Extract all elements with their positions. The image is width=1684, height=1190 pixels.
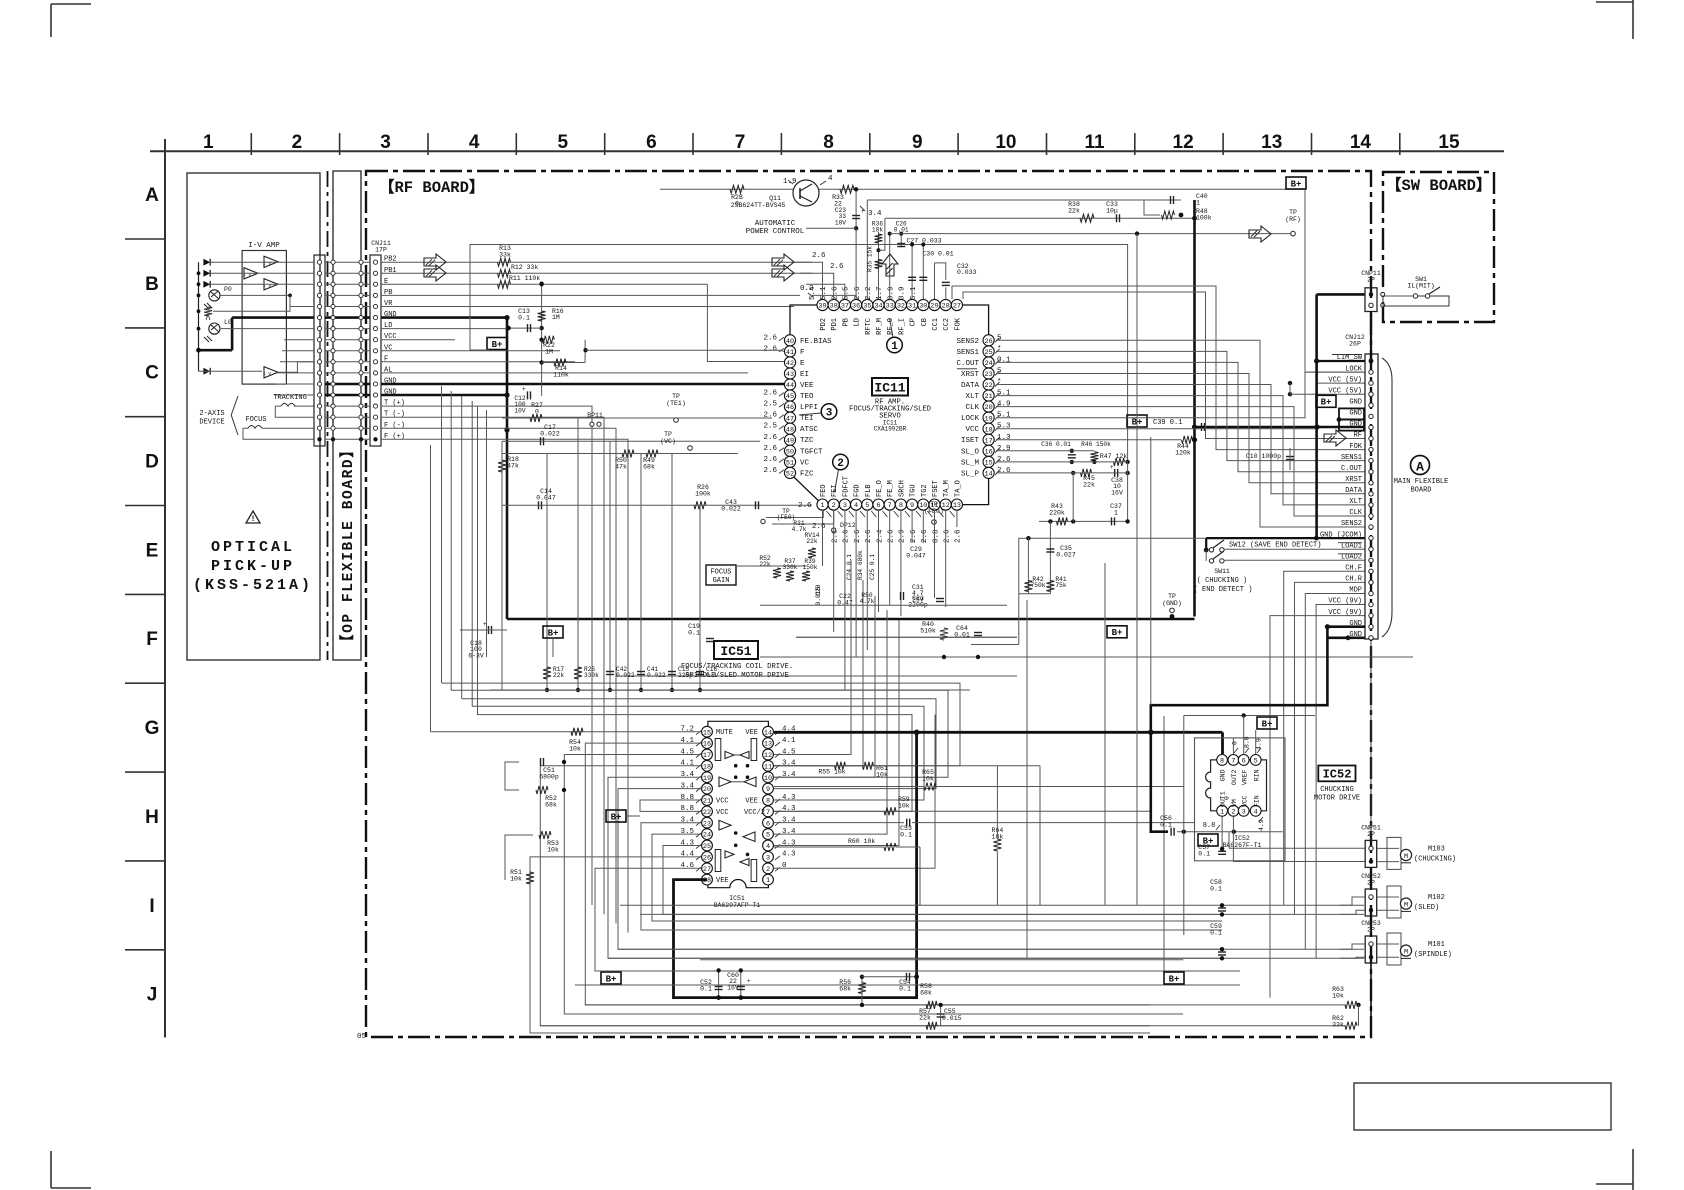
svg-text:7: 7 xyxy=(735,132,746,153)
svg-text:0.2: 0.2 xyxy=(800,285,814,293)
svg-text:SL_O: SL_O xyxy=(961,448,980,456)
svg-text:G: G xyxy=(145,718,160,739)
svg-text:15: 15 xyxy=(1438,132,1460,153)
svg-text:TA_M: TA_M xyxy=(943,480,951,497)
svg-text:43: 43 xyxy=(786,371,794,379)
svg-text:SL_M: SL_M xyxy=(961,459,980,467)
svg-text:3: 3 xyxy=(380,132,391,153)
svg-text:C30 0.01: C30 0.01 xyxy=(922,251,953,258)
svg-text:27: 27 xyxy=(953,303,961,311)
svg-text:IC51: IC51 xyxy=(729,895,745,902)
svg-text:220k: 220k xyxy=(1049,510,1065,517)
svg-text:4.7k: 4.7k xyxy=(792,526,807,533)
svg-text:(RF): (RF) xyxy=(1285,216,1301,223)
svg-text:GND: GND xyxy=(1220,769,1227,781)
svg-text:XRST: XRST xyxy=(961,371,980,379)
svg-text:IC52: IC52 xyxy=(1323,768,1352,782)
svg-text:36: 36 xyxy=(852,303,860,311)
svg-text:OPTICAL: OPTICAL xyxy=(211,539,295,556)
svg-text:M: M xyxy=(1404,948,1408,956)
svg-text:2: 2 xyxy=(766,866,770,874)
svg-text:【RF BOARD】: 【RF BOARD】 xyxy=(379,178,484,197)
svg-text:3: 3 xyxy=(826,408,833,420)
svg-text:1: 1 xyxy=(1196,200,1200,207)
svg-text:4.1: 4.1 xyxy=(782,737,796,745)
svg-text:32: 32 xyxy=(897,303,905,311)
svg-text:IC52: IC52 xyxy=(1234,835,1250,842)
svg-text:TP: TP xyxy=(1168,593,1176,600)
svg-text:12: 12 xyxy=(1173,132,1194,153)
svg-text:2: 2 xyxy=(292,132,303,153)
svg-text:0.022: 0.022 xyxy=(540,431,560,438)
svg-text:CH.R: CH.R xyxy=(1345,576,1363,584)
svg-text:R11 110k: R11 110k xyxy=(509,275,540,282)
svg-text:23: 23 xyxy=(703,820,711,828)
svg-text:8.8: 8.8 xyxy=(1203,822,1216,830)
svg-text:OUT2: OUT2 xyxy=(1231,769,1238,785)
svg-text:C24 0.1: C24 0.1 xyxy=(846,554,853,580)
svg-text:GND: GND xyxy=(1349,399,1362,407)
svg-text:【OP FLEXIBLE BOARD】: 【OP FLEXIBLE BOARD】 xyxy=(339,442,357,649)
svg-text:DP12: DP12 xyxy=(840,522,856,529)
svg-text:SENS1: SENS1 xyxy=(1341,454,1362,462)
svg-text:FLB: FLB xyxy=(865,484,873,497)
svg-text:CLK: CLK xyxy=(965,404,979,412)
svg-text:38: 38 xyxy=(830,303,838,311)
svg-text:(TE1): (TE1) xyxy=(666,400,686,407)
svg-text:20: 20 xyxy=(703,786,711,794)
svg-text:8: 8 xyxy=(766,798,770,806)
svg-text:0: 0 xyxy=(1224,796,1231,800)
svg-text:P0: P0 xyxy=(224,286,232,293)
svg-text:C10 1000p: C10 1000p xyxy=(1246,453,1281,460)
svg-text:IL(MIT): IL(MIT) xyxy=(1407,283,1434,290)
svg-text:VCC/2: VCC/2 xyxy=(744,809,765,817)
svg-text:26: 26 xyxy=(703,855,711,863)
svg-text:2.9: 2.9 xyxy=(899,529,907,543)
svg-text:(KSS-521A): (KSS-521A) xyxy=(193,577,313,594)
svg-text:RF_I: RF_I xyxy=(898,318,906,335)
svg-text:10k: 10k xyxy=(569,746,581,753)
svg-text:0.1: 0.1 xyxy=(899,986,911,993)
svg-text:2.6: 2.6 xyxy=(763,334,777,342)
svg-text:0.047: 0.047 xyxy=(536,495,556,502)
svg-text:15: 15 xyxy=(703,729,711,737)
svg-text:7.2: 7.2 xyxy=(680,726,694,734)
svg-text:3.4: 3.4 xyxy=(782,760,796,768)
svg-text:F: F xyxy=(800,349,805,357)
svg-text:7: 7 xyxy=(766,809,770,817)
svg-text:0.1: 0.1 xyxy=(1210,886,1222,893)
svg-text:TP: TP xyxy=(930,501,938,508)
svg-text:2.5: 2.5 xyxy=(763,401,777,409)
svg-text:6: 6 xyxy=(1242,758,1246,766)
svg-text:10k: 10k xyxy=(510,876,522,883)
svg-text:VM: VM xyxy=(1231,799,1238,807)
svg-text:16: 16 xyxy=(703,741,711,749)
svg-text:B+: B+ xyxy=(1112,628,1123,638)
svg-text:0.1: 0.1 xyxy=(1198,851,1210,858)
svg-text:0.022: 0.022 xyxy=(721,506,741,513)
svg-text:10k: 10k xyxy=(876,772,888,779)
svg-text:B+: B+ xyxy=(548,628,559,638)
svg-text:4.5: 4.5 xyxy=(782,748,796,756)
svg-text:TEI: TEI xyxy=(800,415,814,423)
svg-text:0.015: 0.015 xyxy=(815,587,822,606)
svg-text:POWER CONTROL: POWER CONTROL xyxy=(746,228,805,236)
svg-text:26P: 26P xyxy=(1349,341,1361,348)
svg-text:( END DETECT ): ( END DETECT ) xyxy=(1194,586,1253,594)
svg-text:1: 1 xyxy=(766,877,770,885)
svg-text:39: 39 xyxy=(818,303,826,311)
svg-text:C39 0.1: C39 0.1 xyxy=(1153,419,1182,427)
svg-text:VCC (9V): VCC (9V) xyxy=(1328,609,1362,617)
svg-text:FDFCT: FDFCT xyxy=(842,476,850,497)
svg-text:22k: 22k xyxy=(1083,482,1095,489)
svg-text:(SPINDLE): (SPINDLE) xyxy=(1414,951,1452,959)
svg-text:GND (JCOM): GND (JCOM) xyxy=(1320,531,1362,539)
svg-text:4.9: 4.9 xyxy=(1256,738,1263,750)
svg-text:16V: 16V xyxy=(727,984,739,991)
svg-text:24: 24 xyxy=(985,360,993,368)
svg-text:5: 5 xyxy=(766,832,770,840)
svg-text:330k: 330k xyxy=(584,672,599,679)
svg-text:LPFI: LPFI xyxy=(800,404,818,412)
svg-text:FSET: FSET xyxy=(932,480,940,497)
svg-text:VEE: VEE xyxy=(745,729,758,737)
svg-text:2.5: 2.5 xyxy=(763,423,777,431)
svg-text:8: 8 xyxy=(823,132,834,153)
svg-text:3: 3 xyxy=(1242,808,1246,816)
svg-text:8: 8 xyxy=(899,502,903,510)
svg-text:46: 46 xyxy=(786,404,794,412)
svg-text:M102: M102 xyxy=(1428,894,1445,902)
svg-text:VCC: VCC xyxy=(965,426,979,434)
svg-text:110k: 110k xyxy=(553,372,569,379)
svg-text:B+: B+ xyxy=(1262,719,1273,729)
svg-text:SENS2: SENS2 xyxy=(956,338,979,346)
svg-text:SENS1: SENS1 xyxy=(956,349,979,357)
svg-text:R12 33k: R12 33k xyxy=(511,264,538,271)
svg-text:16V: 16V xyxy=(1111,489,1123,496)
svg-text:1.9: 1.9 xyxy=(783,178,797,186)
svg-text:31: 31 xyxy=(908,303,916,311)
svg-text:13: 13 xyxy=(953,502,961,510)
svg-text:(SLED): (SLED) xyxy=(1414,904,1439,912)
svg-text:2.6: 2.6 xyxy=(865,529,873,543)
svg-text:R55 10k: R55 10k xyxy=(818,769,845,776)
svg-text:15: 15 xyxy=(985,460,993,468)
svg-text:2.6: 2.6 xyxy=(812,252,826,260)
svg-text:CLK: CLK xyxy=(1349,509,1362,517)
svg-text:BOARD: BOARD xyxy=(1410,487,1431,495)
svg-text:J: J xyxy=(147,985,158,1006)
svg-text:XLT: XLT xyxy=(1349,498,1362,506)
svg-text:(GND): (GND) xyxy=(1162,600,1182,607)
svg-text:E: E xyxy=(800,360,805,368)
svg-text:2.4: 2.4 xyxy=(876,529,884,543)
svg-text:0.1: 0.1 xyxy=(900,832,912,839)
svg-text:4: 4 xyxy=(469,132,480,153)
svg-text:LD: LD xyxy=(854,318,862,326)
svg-text:I-V AMP: I-V AMP xyxy=(248,242,280,250)
svg-text:LOAD2: LOAD2 xyxy=(1341,554,1362,562)
svg-text:68k: 68k xyxy=(920,990,932,997)
svg-text:VEE: VEE xyxy=(800,382,814,390)
svg-text:PD2: PD2 xyxy=(820,318,828,331)
svg-text:2.6: 2.6 xyxy=(763,345,777,353)
svg-text:EI: EI xyxy=(800,371,809,379)
svg-text:18: 18 xyxy=(985,426,993,434)
svg-text:3.4: 3.4 xyxy=(680,817,694,825)
svg-text:2: 2 xyxy=(1231,808,1235,816)
svg-text:37: 37 xyxy=(841,303,849,311)
svg-text:FOK: FOK xyxy=(1349,443,1362,451)
svg-text:SW12 (SAVE END DETECT): SW12 (SAVE END DETECT) xyxy=(1229,542,1321,550)
svg-text:F: F xyxy=(146,629,158,650)
svg-text:47k: 47k xyxy=(615,464,627,471)
svg-text:3.4: 3.4 xyxy=(868,210,882,218)
svg-text:33: 33 xyxy=(886,303,894,311)
svg-text:C25 0.1: C25 0.1 xyxy=(869,554,876,580)
svg-text:L0: L0 xyxy=(224,319,232,326)
svg-text:9: 9 xyxy=(910,502,914,510)
svg-text:MDP: MDP xyxy=(1349,587,1362,595)
svg-text:VEE: VEE xyxy=(716,877,729,885)
svg-text:3: 3 xyxy=(843,502,847,510)
svg-text:FGD: FGD xyxy=(854,484,862,497)
svg-text:6: 6 xyxy=(646,132,657,153)
svg-text:FE_M: FE_M xyxy=(887,480,895,497)
svg-text:6: 6 xyxy=(766,820,770,828)
svg-text:21: 21 xyxy=(985,393,993,401)
svg-text:0.1: 0.1 xyxy=(688,630,700,637)
svg-text:8: 8 xyxy=(1220,758,1224,766)
svg-text:19: 19 xyxy=(703,775,711,783)
svg-text:68k: 68k xyxy=(643,464,655,471)
svg-text:VCC (5V): VCC (5V) xyxy=(1328,387,1362,395)
svg-text:22k: 22k xyxy=(919,1015,931,1022)
svg-text:3.4: 3.4 xyxy=(782,817,796,825)
svg-text:2: 2 xyxy=(837,458,844,470)
svg-text:I V: I V xyxy=(263,371,271,377)
svg-text:0.027: 0.027 xyxy=(1056,552,1076,559)
svg-text:45: 45 xyxy=(786,393,794,401)
svg-text:PD1: PD1 xyxy=(831,318,839,331)
svg-text:2.6: 2.6 xyxy=(763,390,777,398)
svg-text:1: 1 xyxy=(203,132,214,153)
svg-text:ATSC: ATSC xyxy=(800,426,819,434)
svg-text:8.8: 8.8 xyxy=(680,794,694,802)
svg-text:0.033: 0.033 xyxy=(957,269,977,276)
svg-text:28: 28 xyxy=(942,303,950,311)
svg-text:A: A xyxy=(145,185,159,206)
svg-text:0.1: 0.1 xyxy=(1160,822,1172,829)
svg-text:17: 17 xyxy=(985,437,993,445)
svg-text:4.4: 4.4 xyxy=(680,851,694,859)
svg-text:4: 4 xyxy=(1254,808,1258,816)
svg-text:VCC (9V): VCC (9V) xyxy=(1328,598,1362,606)
svg-text:2.6: 2.6 xyxy=(798,502,812,510)
svg-text:TGFCT: TGFCT xyxy=(800,448,823,456)
svg-text:C.OUT: C.OUT xyxy=(1341,465,1362,473)
svg-text:22k: 22k xyxy=(759,561,770,568)
svg-text:I V: I V xyxy=(243,272,251,278)
svg-text:CC1: CC1 xyxy=(932,318,940,331)
svg-text:C.OUT: C.OUT xyxy=(956,360,979,368)
svg-text:35: 35 xyxy=(863,303,871,311)
svg-text:10k: 10k xyxy=(898,803,910,810)
svg-text:52: 52 xyxy=(786,471,794,479)
svg-text:B+: B+ xyxy=(1321,398,1332,408)
svg-text:25: 25 xyxy=(985,349,993,357)
svg-text:FEO: FEO xyxy=(820,484,828,497)
svg-text:2.6: 2.6 xyxy=(763,445,777,453)
svg-text:CHUCKING: CHUCKING xyxy=(1320,786,1354,794)
svg-text:VCC (5V): VCC (5V) xyxy=(1328,376,1362,384)
svg-text:C: C xyxy=(145,363,159,384)
svg-text:5: 5 xyxy=(1254,758,1258,766)
svg-text:B+: B+ xyxy=(606,974,617,984)
svg-text:750k: 750k xyxy=(1031,582,1046,589)
svg-text:20: 20 xyxy=(985,404,993,412)
svg-text:16: 16 xyxy=(985,448,993,456)
svg-text:27: 27 xyxy=(703,866,711,874)
svg-text:C36 0.01: C36 0.01 xyxy=(1041,441,1071,448)
svg-text:14: 14 xyxy=(764,729,772,737)
svg-text:10k: 10k xyxy=(922,776,934,783)
svg-text:100k: 100k xyxy=(1196,215,1212,222)
svg-text:GND: GND xyxy=(1349,421,1362,429)
svg-text:17: 17 xyxy=(703,752,711,760)
svg-text:2.6: 2.6 xyxy=(910,529,918,543)
svg-text:1M: 1M xyxy=(552,314,560,321)
svg-text:2.6: 2.6 xyxy=(955,529,963,543)
svg-text:M101: M101 xyxy=(1428,941,1445,949)
svg-text:30: 30 xyxy=(919,303,927,311)
svg-text:FOK: FOK xyxy=(954,317,962,330)
svg-text:IC11: IC11 xyxy=(874,381,905,396)
svg-text:H: H xyxy=(145,807,159,828)
svg-text:C55: C55 xyxy=(944,1008,956,1015)
svg-text:10: 10 xyxy=(764,775,772,783)
svg-text:4.1: 4.1 xyxy=(680,737,694,745)
svg-text:22k: 22k xyxy=(553,672,564,679)
svg-text:DATA: DATA xyxy=(1345,487,1363,495)
svg-text:330k: 330k xyxy=(783,564,798,571)
svg-text:100k: 100k xyxy=(695,491,711,498)
svg-text:19: 19 xyxy=(985,415,993,423)
svg-text:D: D xyxy=(145,452,159,473)
svg-text:14: 14 xyxy=(985,471,993,479)
svg-text:2.6: 2.6 xyxy=(921,529,929,543)
svg-text:5.1: 5.1 xyxy=(910,286,918,300)
svg-text:VEE: VEE xyxy=(745,798,758,806)
svg-text:FOCUS/TRACKING COIL DRIVE.: FOCUS/TRACKING COIL DRIVE. xyxy=(681,663,793,671)
svg-text:RFTC: RFTC xyxy=(865,318,873,335)
svg-text:0.047: 0.047 xyxy=(906,553,926,560)
svg-text:47: 47 xyxy=(786,415,794,423)
svg-text:3.4: 3.4 xyxy=(680,782,694,790)
svg-text:LOAD1: LOAD1 xyxy=(1341,542,1362,550)
svg-text:4.5: 4.5 xyxy=(680,748,694,756)
svg-text:1: 1 xyxy=(1220,808,1224,816)
svg-text:510k: 510k xyxy=(920,628,936,635)
svg-text:I V: I V xyxy=(263,260,271,266)
svg-text:FIN: FIN xyxy=(1253,795,1260,807)
svg-text:23: 23 xyxy=(985,371,993,379)
svg-text:2.6: 2.6 xyxy=(854,286,862,300)
svg-text:2-AXIS: 2-AXIS xyxy=(199,410,224,418)
svg-text:1: 1 xyxy=(891,341,898,353)
svg-text:+: + xyxy=(522,386,526,393)
svg-text:CXA1992BR: CXA1992BR xyxy=(874,426,907,433)
svg-text:42: 42 xyxy=(786,360,794,368)
svg-text:9: 9 xyxy=(912,132,923,153)
svg-text:17P: 17P xyxy=(375,247,387,254)
svg-text:120k: 120k xyxy=(1175,450,1191,457)
svg-text:18: 18 xyxy=(703,763,711,771)
svg-text:TP: TP xyxy=(1289,209,1297,216)
svg-text:MAIN FLEXIBLE: MAIN FLEXIBLE xyxy=(1394,478,1449,486)
svg-text:Q11: Q11 xyxy=(769,195,781,202)
svg-text:8.8: 8.8 xyxy=(1244,736,1251,748)
svg-text:4: 4 xyxy=(854,502,858,510)
svg-text:1.7: 1.7 xyxy=(876,286,884,300)
svg-text:3.4: 3.4 xyxy=(782,828,796,836)
svg-text:PICK-UP: PICK-UP xyxy=(211,558,295,575)
svg-text:14: 14 xyxy=(1350,132,1372,153)
svg-text:I: I xyxy=(149,896,154,917)
svg-text:4.3: 4.3 xyxy=(782,839,796,847)
svg-text:FZC: FZC xyxy=(800,470,814,478)
svg-text:DEVICE: DEVICE xyxy=(199,419,224,427)
svg-text:B+: B+ xyxy=(1169,974,1180,984)
svg-text:【SW BOARD】: 【SW BOARD】 xyxy=(1386,176,1491,195)
svg-text:1: 1 xyxy=(820,502,824,510)
svg-text:CB: CB xyxy=(921,318,929,326)
svg-text:1: 1 xyxy=(1114,510,1118,517)
svg-text:B: B xyxy=(145,274,159,295)
svg-text:VREF: VREF xyxy=(1241,769,1248,785)
svg-text:24: 24 xyxy=(703,832,711,840)
svg-text:0.9: 0.9 xyxy=(899,286,907,300)
svg-text:2.6: 2.6 xyxy=(944,529,952,543)
svg-text:0.1: 0.1 xyxy=(518,315,530,322)
svg-text:(FE0): (FE0) xyxy=(777,514,796,521)
svg-text:2.6: 2.6 xyxy=(763,456,777,464)
svg-text:4.3: 4.3 xyxy=(782,794,796,802)
svg-text:5: 5 xyxy=(558,132,569,153)
svg-text:6: 6 xyxy=(876,502,880,510)
svg-text:E: E xyxy=(146,540,159,561)
svg-text:TGU: TGU xyxy=(910,484,918,497)
svg-text:TA_O: TA_O xyxy=(954,480,962,497)
svg-text:SW11: SW11 xyxy=(1214,568,1230,575)
svg-text:34: 34 xyxy=(874,303,882,311)
svg-text:10V: 10V xyxy=(514,407,525,414)
svg-text:M: M xyxy=(1404,853,1408,861)
svg-text:GAIN: GAIN xyxy=(713,577,730,585)
svg-text:5: 5 xyxy=(865,502,869,510)
svg-text:51: 51 xyxy=(786,460,794,468)
svg-text:TG2: TG2 xyxy=(921,484,929,497)
svg-text:1M: 1M xyxy=(545,349,553,356)
svg-text:XLT: XLT xyxy=(965,393,979,401)
svg-text:33k: 33k xyxy=(1332,1022,1344,1029)
svg-text:4.3: 4.3 xyxy=(782,805,796,813)
svg-text:2.6: 2.6 xyxy=(763,434,777,442)
